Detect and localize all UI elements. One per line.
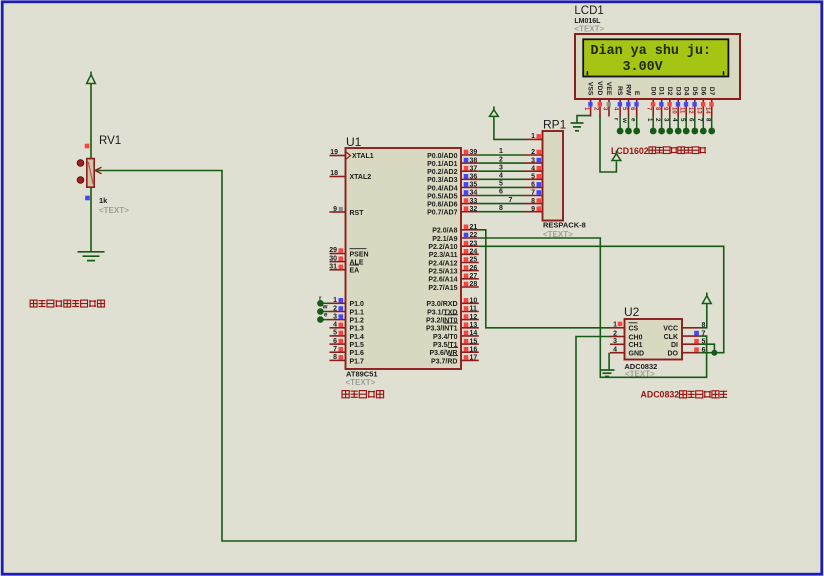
LCD pin D7 (14) <box>704 87 715 117</box>
RP1 pin 1 <box>525 133 543 140</box>
svg-text:RESPACK-8: RESPACK-8 <box>543 221 586 230</box>
RV1 pin marker square bottom <box>85 196 90 201</box>
svg-text:P2.2/A10: P2.2/A10 <box>428 244 457 251</box>
wire P0.3 to RP1 pin 5, net 4 <box>479 173 525 180</box>
U1 pin P1.6 (7) <box>330 346 365 357</box>
RP1 pin 3 <box>525 157 543 164</box>
svg-text:U1: U1 <box>346 135 362 149</box>
svg-text:E: E <box>633 91 640 96</box>
U1 pin XTAL1 (19) <box>330 149 374 160</box>
terminal 1 on LCD pin 7 <box>646 117 657 135</box>
svg-text:25: 25 <box>470 257 478 264</box>
wire P0.2 to RP1 pin 4, net 3 <box>479 164 525 171</box>
U1 pin P3.3/INT1 (13) <box>426 322 479 333</box>
power terminal for RP1 <box>490 107 499 117</box>
U2 pin DI (5) <box>671 338 706 349</box>
LCD pin D0 (7) <box>646 87 657 117</box>
svg-text:Dian ya shu ju:: Dian ya shu ju: <box>591 44 712 59</box>
svg-text:3: 3 <box>613 338 617 345</box>
terminal r on LCD pin 4 <box>613 117 624 135</box>
svg-text:P1.6: P1.6 <box>350 350 365 357</box>
svg-text:18: 18 <box>330 170 338 177</box>
label TEXT LCD1 <box>574 25 604 34</box>
svg-text:28: 28 <box>470 281 478 288</box>
svg-text:3.00V: 3.00V <box>623 60 664 75</box>
U1 pin P0.2/AD2 (37) <box>427 165 479 176</box>
svg-text:D2: D2 <box>666 87 673 96</box>
LCD pin VSS (1) <box>583 82 594 117</box>
svg-text:3: 3 <box>531 157 535 164</box>
svg-text:27: 27 <box>470 273 478 280</box>
net label 电压模拟变化的电路 <box>30 300 104 307</box>
svg-text:2: 2 <box>654 118 661 122</box>
net label 单片机电路 <box>342 391 384 398</box>
U2 pin DO (6) <box>668 347 706 358</box>
U1 pin P1.2 (3) <box>330 313 365 324</box>
wire P0.6 to RP1 pin 8, net 7 <box>479 197 525 204</box>
svg-text:D7: D7 <box>708 87 715 96</box>
svg-text:19: 19 <box>330 149 338 156</box>
svg-text:7: 7 <box>696 118 703 122</box>
lcd text line 2: 3.00V <box>623 60 664 75</box>
svg-text:<TEXT>: <TEXT> <box>346 378 376 387</box>
ground for RV1 <box>78 252 105 261</box>
U2 pin CS (1) <box>610 322 639 333</box>
svg-text:P2.3/A11: P2.3/A11 <box>429 252 458 259</box>
svg-text:26: 26 <box>470 265 478 272</box>
terminal 4 on LCD pin 10 <box>671 117 682 135</box>
ground for LCD VSS <box>571 123 584 131</box>
U1 pin P2.2/A10 (23) <box>428 240 478 251</box>
svg-text:D0: D0 <box>649 87 656 96</box>
U2 pin CH1 (3) <box>610 338 643 349</box>
svg-text:1: 1 <box>531 133 535 140</box>
svg-text:P0.1/AD1: P0.1/AD1 <box>427 161 457 168</box>
svg-text:5: 5 <box>679 118 686 122</box>
U1 pin P3.1/TXD (11) <box>427 306 479 317</box>
U2 pin VCC (8) <box>663 322 705 333</box>
U1 pin EA (31) <box>329 264 359 275</box>
svg-text:P3.4/T0: P3.4/T0 <box>433 334 458 341</box>
svg-text:U2: U2 <box>624 305 640 319</box>
svg-text:13: 13 <box>696 107 702 114</box>
svg-text:P1.3: P1.3 <box>350 326 365 333</box>
U1 pin P2.4/A12 (25) <box>428 257 478 268</box>
svg-text:P1.4: P1.4 <box>350 334 365 341</box>
terminal e on P1.2 <box>317 311 329 323</box>
svg-text:32: 32 <box>470 206 478 213</box>
U1 pin P2.5/A13 (26) <box>428 265 478 276</box>
svg-text:P0.6/AD6: P0.6/AD6 <box>427 202 457 209</box>
U1 pin P0.4/AD4 (35) <box>427 182 479 193</box>
label LCD1 <box>574 5 603 17</box>
U1 pin P1.0 (1) <box>330 297 365 308</box>
U1 pin P1.4 (5) <box>330 330 365 341</box>
label ADC0832 <box>624 362 657 371</box>
label LM016L <box>574 18 601 25</box>
svg-text:1: 1 <box>613 322 617 329</box>
U1 pin P2.7/A15 (28) <box>428 281 478 292</box>
svg-text:w: w <box>621 117 628 123</box>
wire power to RP1 pin 1 <box>494 116 525 139</box>
power terminal for U2 VCC <box>702 293 711 304</box>
svg-text:30: 30 <box>329 255 337 262</box>
label TEXT U2 <box>625 370 655 379</box>
U1 pin P0.6/AD6 (33) <box>427 198 479 209</box>
LCD pin VDD (2) <box>592 81 603 116</box>
net label ADC0832电压采样电路 <box>641 390 728 400</box>
power terminal for LCD VDD <box>612 151 621 161</box>
svg-text:P0.2/AD2: P0.2/AD2 <box>427 169 457 176</box>
RP1 pin 8 <box>525 198 543 205</box>
svg-text:11: 11 <box>679 107 685 114</box>
svg-text:RP1: RP1 <box>543 118 567 132</box>
RP1 pin 9 <box>525 206 543 213</box>
LCD pin D6 (13) <box>696 87 707 117</box>
wire U2 VCC to power <box>699 304 707 328</box>
terminal 2 on LCD pin 8 <box>654 117 665 135</box>
svg-text:P2.7/A15: P2.7/A15 <box>428 285 457 292</box>
U1 pin ALE (30) <box>329 255 364 266</box>
U1 pin P0.7/AD7 (32) <box>427 206 479 217</box>
svg-text:2: 2 <box>613 330 617 337</box>
svg-text:1: 1 <box>333 297 337 304</box>
svg-text:P3.2/INT0: P3.2/INT0 <box>426 318 458 325</box>
label TEXT RP1 <box>543 230 573 239</box>
wire P2.0 to U2 CS <box>479 230 610 328</box>
svg-text:P2.4/A12: P2.4/A12 <box>428 260 457 267</box>
svg-text:36: 36 <box>470 174 478 181</box>
svg-text:5: 5 <box>499 181 503 188</box>
U1 pin P3.6/WR (16) <box>429 346 478 357</box>
U1 pin XTAL2 (18) <box>330 170 372 181</box>
svg-text:1: 1 <box>499 148 503 155</box>
RP1 pin 5 <box>525 174 543 181</box>
svg-text:23: 23 <box>470 240 478 247</box>
svg-text:2: 2 <box>499 156 503 163</box>
RV1 terminal marker bottom <box>77 177 84 184</box>
svg-text:24: 24 <box>470 249 478 256</box>
svg-text:12: 12 <box>470 314 478 321</box>
terminal 5 on LCD pin 11 <box>679 117 690 135</box>
svg-text:2: 2 <box>531 149 535 156</box>
svg-text:7: 7 <box>333 346 337 353</box>
svg-text:21: 21 <box>470 224 478 231</box>
wire RV1 wiper to ADC CH0 net <box>97 171 611 542</box>
U1 pin P2.0/A8 (21) <box>432 224 479 235</box>
resistor pack RP1 body <box>543 131 564 221</box>
svg-text:P1.0: P1.0 <box>350 301 365 308</box>
lcd LCD1 body <box>575 34 740 99</box>
svg-text:1: 1 <box>646 118 653 122</box>
svg-text:3: 3 <box>499 164 503 171</box>
svg-text:P3.6/WR: P3.6/WR <box>429 350 457 357</box>
terminal r on P1.0 <box>317 295 329 307</box>
svg-text:P2.5/A13: P2.5/A13 <box>428 269 457 276</box>
U2 pin CH0 (2) <box>610 330 643 341</box>
svg-text:GND: GND <box>629 351 645 358</box>
LCD pin E (6) <box>629 91 640 117</box>
net label LCD1602液晶显示屏电路 <box>611 146 706 156</box>
svg-text:39: 39 <box>470 149 478 156</box>
mcu U1 body <box>346 148 462 369</box>
label AT89C51 <box>346 370 378 379</box>
svg-text:16: 16 <box>470 346 478 353</box>
U1 pin P2.1/A9 (22) <box>432 232 479 243</box>
U2 pin GND (4) <box>610 347 644 358</box>
label RP1 <box>543 118 567 132</box>
svg-text:6: 6 <box>333 338 337 345</box>
svg-text:w: w <box>321 303 328 310</box>
svg-text:CS: CS <box>629 326 639 333</box>
svg-text:RST: RST <box>350 210 365 217</box>
LCD pin RS (4) <box>613 86 624 116</box>
wire U2 GND to ground <box>608 353 610 370</box>
svg-text:CH1: CH1 <box>629 342 643 349</box>
svg-text:10: 10 <box>470 298 478 305</box>
LCD pin D2 (9) <box>662 87 673 117</box>
svg-text:17: 17 <box>470 355 478 362</box>
U1 pin P0.3/AD3 (36) <box>427 174 479 185</box>
terminal w on LCD pin 5 <box>621 117 632 135</box>
wire LCD VDD to power <box>600 116 616 173</box>
RP1 pin 6 <box>525 182 543 189</box>
U1 pin P2.3/A11 (24) <box>429 249 479 260</box>
svg-text:D3: D3 <box>674 87 681 96</box>
svg-text:RS: RS <box>616 86 623 96</box>
svg-text:VEE: VEE <box>605 82 612 96</box>
lcd text line 1: Dian ya shu ju: <box>591 44 712 59</box>
LCD pin D5 (12) <box>687 87 698 117</box>
RP1 pin 2 <box>525 149 543 156</box>
svg-text:P3.1/TXD: P3.1/TXD <box>427 309 457 316</box>
svg-text:35: 35 <box>470 182 478 189</box>
svg-text:P3.7/RD: P3.7/RD <box>431 358 457 365</box>
U1 pin PSEN (29) <box>329 247 368 258</box>
U1 pin P1.7 (8) <box>330 354 365 365</box>
svg-text:33: 33 <box>470 198 478 205</box>
wire P2.1 to U2 CLK <box>479 238 707 377</box>
U1 pin P3.2/INT0 (12) <box>426 314 479 325</box>
svg-text:4: 4 <box>499 173 503 180</box>
U1 pin P1.1 (2) <box>330 305 365 316</box>
wire P0.4 to RP1 pin 6, net 5 <box>479 181 525 188</box>
svg-text:2: 2 <box>333 305 337 312</box>
svg-text:22: 22 <box>470 232 478 239</box>
power terminal +V for RV1 <box>87 72 96 159</box>
svg-text:1k: 1k <box>99 196 108 205</box>
ground for U2 <box>600 370 615 376</box>
svg-text:6: 6 <box>499 189 503 196</box>
svg-text:<TEXT>: <TEXT> <box>574 25 604 34</box>
terminal e on LCD pin 6 <box>629 117 640 135</box>
wire RV1 bottom to ground <box>90 187 92 251</box>
svg-text:LCD1: LCD1 <box>574 5 603 17</box>
svg-text:CH0: CH0 <box>629 334 643 341</box>
LCD pin RW (5) <box>621 84 632 116</box>
U1 pin P3.0/RXD (10) <box>426 298 478 309</box>
svg-text:e: e <box>324 311 328 318</box>
svg-text:P3.3/INT1: P3.3/INT1 <box>426 326 458 333</box>
svg-text:31: 31 <box>329 264 337 271</box>
svg-text:ADC0832: ADC0832 <box>641 390 680 400</box>
svg-text:P0.4/AD4: P0.4/AD4 <box>427 185 457 192</box>
svg-text:D4: D4 <box>682 87 689 96</box>
svg-text:ALE: ALE <box>350 260 364 267</box>
label RV1 <box>99 135 121 147</box>
RP1 pin 7 <box>525 190 543 197</box>
svg-text:<TEXT>: <TEXT> <box>99 206 129 215</box>
RV1 pin marker square top <box>85 144 90 149</box>
label U1 <box>346 135 362 149</box>
svg-text:e: e <box>629 118 636 122</box>
svg-text:5: 5 <box>333 330 337 337</box>
svg-text:XTAL1: XTAL1 <box>352 153 374 160</box>
junction DI/DO <box>711 350 717 356</box>
svg-text:8: 8 <box>333 354 337 361</box>
svg-text:VCC: VCC <box>663 326 678 333</box>
U1 pin P0.1/AD1 (38) <box>427 157 479 168</box>
svg-text:RW: RW <box>625 84 632 96</box>
U1 pin P3.4/T0 (14) <box>433 330 479 341</box>
svg-text:LCD1602: LCD1602 <box>611 146 649 156</box>
svg-text:3: 3 <box>333 313 337 320</box>
svg-text:VSS: VSS <box>587 82 594 96</box>
svg-text:11: 11 <box>470 306 478 313</box>
svg-text:4: 4 <box>671 118 678 122</box>
svg-text:D1: D1 <box>658 87 665 96</box>
wire P0.5 to RP1 pin 7, net 6 <box>479 189 525 196</box>
LCD pin D4 (11) <box>679 87 690 117</box>
svg-text:P2.1/A9: P2.1/A9 <box>432 236 457 243</box>
wire P2.2 to U2 DI/DO <box>479 246 724 352</box>
label TEXT RV1 <box>99 206 129 215</box>
U1 pin P1.3 (4) <box>330 322 365 333</box>
svg-text:P1.5: P1.5 <box>350 342 365 349</box>
U2 pin CLK (7) <box>664 330 706 341</box>
U1 pin P2.6/A14 (27) <box>428 273 478 284</box>
svg-text:10: 10 <box>671 107 677 114</box>
svg-text:34: 34 <box>470 190 478 197</box>
adc U2 body <box>625 319 683 360</box>
svg-text:14: 14 <box>470 330 478 337</box>
svg-text:P0.0/AD0: P0.0/AD0 <box>427 153 457 160</box>
svg-text:P0.3/AD3: P0.3/AD3 <box>427 177 457 184</box>
svg-text:DI: DI <box>671 342 678 349</box>
RV1 wiper arrow <box>95 167 102 174</box>
svg-text:XTAL2: XTAL2 <box>350 174 372 181</box>
U1 pin RST (9) <box>330 206 365 217</box>
svg-text:38: 38 <box>470 157 478 164</box>
svg-text:P2.0/A8: P2.0/A8 <box>432 228 457 235</box>
svg-text:6: 6 <box>531 182 535 189</box>
svg-text:D5: D5 <box>691 87 698 96</box>
RP1 pin 4 <box>525 165 543 172</box>
svg-text:29: 29 <box>329 247 337 254</box>
U1 pin P3.5/T1 (15) <box>433 338 479 349</box>
svg-text:P2.6/A14: P2.6/A14 <box>428 277 457 284</box>
svg-text:8: 8 <box>704 118 711 122</box>
svg-text:VDD: VDD <box>596 81 603 95</box>
wire LCD VSS to ground <box>577 116 591 123</box>
terminal 8 on LCD pin 14 <box>704 117 715 135</box>
terminal 7 on LCD pin 13 <box>696 117 707 135</box>
svg-text:RV1: RV1 <box>99 135 121 147</box>
terminal w on P1.1 <box>317 303 329 315</box>
svg-text:7: 7 <box>531 190 535 197</box>
value label 1k <box>99 196 108 205</box>
U1 pin P3.7/RD (17) <box>431 355 479 366</box>
svg-text:37: 37 <box>470 165 478 172</box>
U1 pin P1.5 (6) <box>330 338 365 349</box>
svg-text:12: 12 <box>687 107 693 114</box>
svg-text:3: 3 <box>662 118 669 122</box>
svg-text:PSEN: PSEN <box>350 251 369 258</box>
svg-text:9: 9 <box>333 206 337 213</box>
wire P0.7 to RP1 pin 9, net 8 <box>479 205 525 212</box>
lcd screen <box>583 39 728 76</box>
svg-text:DO: DO <box>668 351 679 358</box>
svg-text:P1.2: P1.2 <box>350 318 365 325</box>
svg-text:8: 8 <box>531 198 535 205</box>
svg-text:9: 9 <box>531 206 535 213</box>
wire P0.0 to RP1 pin 2, net 1 <box>479 148 525 155</box>
U1 pin P0.0/AD0 (39) <box>427 149 479 160</box>
RV1 terminal marker top <box>77 160 84 167</box>
wire U2 DI to junction <box>699 344 714 353</box>
label U2 <box>624 305 640 319</box>
svg-text:EA: EA <box>350 268 360 275</box>
wire P0.1 to RP1 pin 3, net 2 <box>479 156 525 163</box>
svg-text:6: 6 <box>687 118 694 122</box>
U1 pin P0.5/AD5 (34) <box>427 190 479 201</box>
svg-text:P1.7: P1.7 <box>350 358 365 365</box>
svg-text:4: 4 <box>333 322 337 329</box>
svg-text:4: 4 <box>531 165 535 172</box>
svg-text:P0.5/AD5: P0.5/AD5 <box>427 193 457 200</box>
LCD pin VEE (3) <box>601 82 612 117</box>
svg-text:P3.5/T1: P3.5/T1 <box>433 342 458 349</box>
svg-text:5: 5 <box>531 174 535 181</box>
potentiometer RV1 <box>87 159 94 188</box>
wire U2 DO to junction <box>699 352 714 354</box>
svg-text:P3.0/RXD: P3.0/RXD <box>426 301 457 308</box>
terminal 3 on LCD pin 9 <box>662 117 673 135</box>
svg-text:8: 8 <box>499 205 503 212</box>
svg-text:CLK: CLK <box>664 334 678 341</box>
svg-text:7: 7 <box>509 197 513 204</box>
svg-text:15: 15 <box>470 338 478 345</box>
svg-text:D6: D6 <box>699 87 706 96</box>
LCD pin D1 (8) <box>654 87 665 117</box>
svg-text:P1.1: P1.1 <box>350 309 365 316</box>
label TEXT U1 <box>346 378 376 387</box>
svg-text:4: 4 <box>613 347 617 354</box>
label RESPACK-8 <box>543 221 586 230</box>
svg-text:14: 14 <box>704 107 710 114</box>
svg-text:P0.7/AD7: P0.7/AD7 <box>427 210 457 217</box>
terminal 6 on LCD pin 12 <box>687 117 698 135</box>
LCD pin D3 (10) <box>671 87 682 117</box>
svg-text:13: 13 <box>470 322 478 329</box>
